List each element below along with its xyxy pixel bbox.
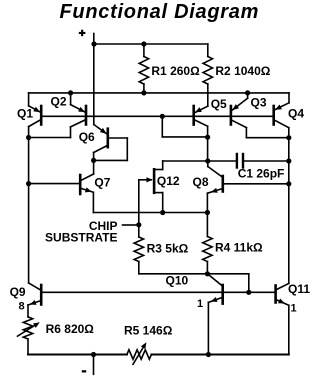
- svg-text:1: 1: [197, 298, 203, 310]
- svg-text:R1 260Ω: R1 260Ω: [151, 64, 200, 78]
- svg-text:Q5: Q5: [211, 97, 227, 111]
- svg-text:8: 8: [19, 301, 25, 313]
- svg-text:1: 1: [291, 302, 297, 314]
- svg-text:Q6: Q6: [79, 130, 95, 144]
- svg-text:SUBSTRATE: SUBSTRATE: [45, 231, 117, 245]
- svg-text:R2 1040Ω: R2 1040Ω: [215, 64, 270, 78]
- svg-text:C1 26pF: C1 26pF: [238, 167, 285, 181]
- svg-text:R4 11kΩ: R4 11kΩ: [215, 241, 263, 255]
- svg-text:R3 5kΩ: R3 5kΩ: [147, 241, 189, 255]
- svg-text:Functional Diagram: Functional Diagram: [60, 1, 260, 23]
- svg-text:R6 820Ω: R6 820Ω: [46, 322, 95, 336]
- svg-text:Q4: Q4: [288, 106, 304, 120]
- svg-text:Q3: Q3: [251, 96, 267, 110]
- svg-text:Q10: Q10: [166, 273, 189, 287]
- svg-text:Q1: Q1: [17, 106, 33, 120]
- svg-text:Q9: Q9: [10, 285, 26, 299]
- svg-text:Q11: Q11: [288, 282, 310, 296]
- svg-text:Q7: Q7: [94, 176, 110, 190]
- svg-text:Q12: Q12: [157, 174, 180, 188]
- svg-text:Q8: Q8: [193, 175, 209, 189]
- svg-text:R5 146Ω: R5 146Ω: [124, 324, 173, 338]
- svg-text:Q2: Q2: [51, 94, 67, 108]
